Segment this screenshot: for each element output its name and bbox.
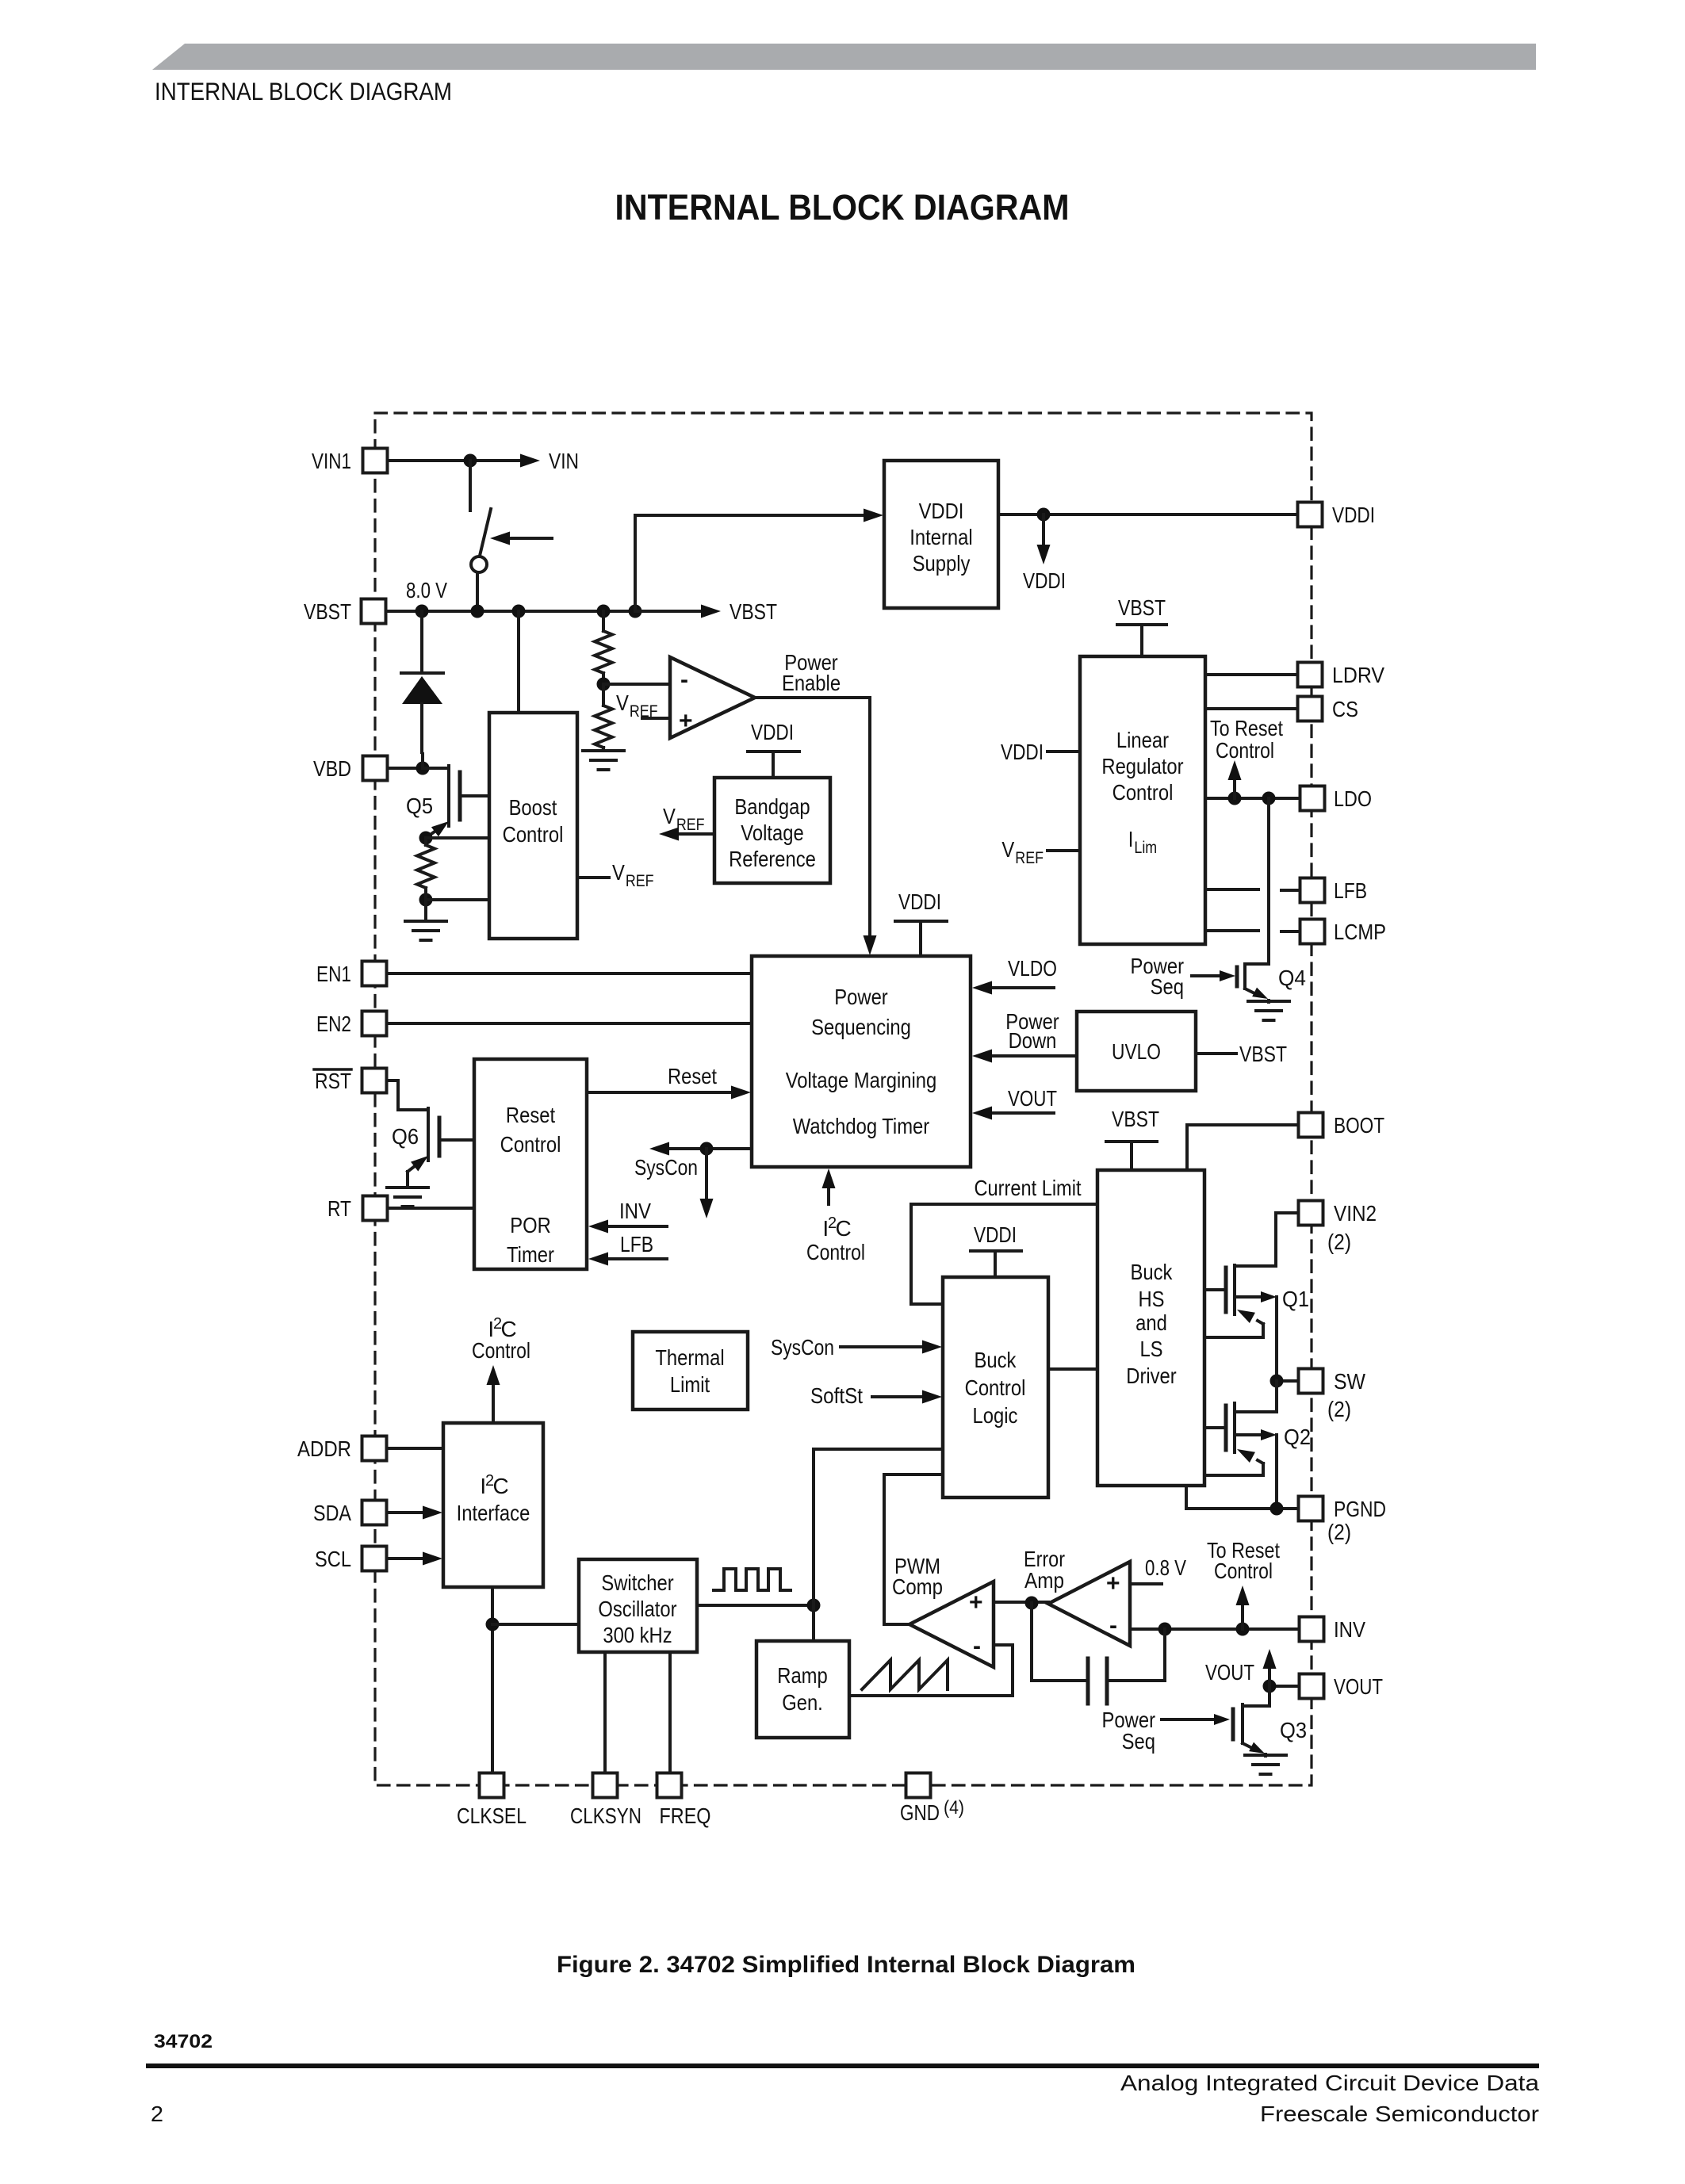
svg-text:VBST: VBST	[1112, 1107, 1159, 1131]
svg-text:+: +	[969, 1589, 983, 1616]
wire VOUT arrow up	[1268, 1668, 1271, 1686]
pin EN2	[362, 1012, 387, 1036]
svg-text:CLKSEL: CLKSEL	[457, 1803, 527, 1828]
svg-text:VDDI: VDDI	[1023, 568, 1066, 593]
svg-text:Interface: Interface	[457, 1501, 530, 1525]
svg-text:VDDI: VDDI	[898, 889, 941, 914]
figure caption	[557, 1952, 1135, 1978]
svg-text:Control: Control	[806, 1240, 865, 1264]
node LDO junction (Q4 drain)	[1262, 792, 1276, 805]
svg-text:(4): (4)	[944, 1797, 964, 1819]
block Buck HS and LS Driver	[1097, 1170, 1204, 1486]
svg-text:+: +	[679, 708, 693, 734]
node oscillator output junction	[807, 1599, 821, 1612]
wire LCMP (from box, broken at Q4 drain)	[1205, 929, 1258, 932]
wire Q5 source to Boost Control	[426, 836, 489, 840]
pin VOUT	[1300, 1674, 1324, 1699]
svg-text:Current Limit: Current Limit	[975, 1176, 1082, 1200]
footer right text	[1120, 2071, 1539, 2095]
wire VBST rail to Boost Control top	[517, 611, 520, 713]
wire error amp output to PWM +	[994, 1601, 1048, 1604]
pin LCMP	[1300, 920, 1325, 944]
block Reset Control / POR Timer	[474, 1059, 587, 1269]
wire VOUT	[1269, 1685, 1299, 1688]
wire tap to Boost Control	[426, 898, 489, 901]
pin ADDR	[362, 1436, 387, 1461]
wire RT to POR timer	[388, 1207, 474, 1210]
pin PGND	[1299, 1497, 1323, 1521]
node 8.0 V label	[406, 578, 447, 602]
wire LFB into POR timer	[606, 1257, 667, 1260]
svg-text:V: V	[1001, 837, 1014, 862]
pin LDRV	[1298, 663, 1323, 687]
wire ramp output to PWM comp - input	[849, 1645, 1013, 1696]
svg-text:VDDI: VDDI	[974, 1222, 1017, 1247]
wire SCL	[387, 1557, 423, 1560]
svg-text:LFB: LFB	[1334, 878, 1367, 903]
pin FREQ	[657, 1773, 682, 1798]
svg-text:Freescale Semiconductor: Freescale Semiconductor	[1260, 2102, 1539, 2126]
svg-text:Control: Control	[1216, 738, 1274, 763]
node I2C Control label (power seq)	[806, 1214, 865, 1264]
node To Reset Control arrow (LDO)	[1228, 792, 1242, 805]
ground (Q4)	[1248, 1000, 1289, 1003]
page title	[615, 187, 1070, 228]
wire SDA	[387, 1511, 423, 1514]
svg-text:Figure 2. 34702 Simplified Int: Figure 2. 34702 Simplified Internal Bloc…	[557, 1952, 1135, 1978]
ground (Q6)	[387, 1186, 428, 1189]
svg-text:Watchdog Timer: Watchdog Timer	[793, 1114, 929, 1138]
svg-text:V: V	[612, 860, 625, 885]
wire EN2	[387, 1022, 752, 1025]
node Power Seq label (Q4)	[1131, 954, 1184, 999]
wire SW	[1277, 1379, 1299, 1383]
svg-text:Control: Control	[500, 1132, 561, 1157]
ground (below R1)	[424, 900, 427, 921]
svg-text:Q3: Q3	[1280, 1718, 1307, 1742]
svg-text:(2): (2)	[1327, 1397, 1351, 1421]
wire to comparator - input	[603, 683, 670, 686]
svg-text:LFB: LFB	[620, 1232, 653, 1256]
node rail junctions	[416, 605, 429, 618]
op-amp Error Amp	[1048, 1562, 1130, 1646]
svg-text:VIN2: VIN2	[1334, 1201, 1377, 1226]
block UVLO	[1077, 1012, 1196, 1091]
block Thermal Limit	[633, 1332, 748, 1409]
pin CLKSEL	[480, 1773, 504, 1798]
capacitor C1 (error amp feedback)	[1032, 1603, 1088, 1681]
wire: VBST arrow out	[635, 610, 702, 613]
svg-text:Logic: Logic	[973, 1403, 1018, 1428]
svg-text:INTERNAL BLOCK DIAGRAM: INTERNAL BLOCK DIAGRAM	[615, 187, 1070, 228]
footer rule	[146, 2064, 1539, 2068]
node divider mid	[602, 673, 605, 684]
svg-text:SCL: SCL	[315, 1547, 351, 1571]
svg-text:FREQ: FREQ	[660, 1803, 711, 1828]
svg-text:CLKSYN: CLKSYN	[570, 1803, 641, 1828]
wire I2C interface down to CLKSEL	[491, 1587, 494, 1773]
svg-text:Seq: Seq	[1151, 974, 1184, 999]
svg-text:-: -	[1109, 1612, 1117, 1639]
wire: VIN arrow	[520, 454, 540, 468]
node I2C/osc junction	[486, 1618, 500, 1631]
svg-text:INV: INV	[1334, 1617, 1365, 1642]
wire LFB (from box, broken at Q4 drain)	[1205, 888, 1258, 891]
wire oscillator output	[697, 1604, 814, 1607]
svg-text:Amp: Amp	[1024, 1568, 1064, 1593]
svg-text:+: +	[1106, 1570, 1120, 1597]
wire Current Limit	[911, 1204, 1097, 1304]
wire buck control to driver	[1048, 1367, 1097, 1371]
svg-text:Control: Control	[1112, 780, 1174, 805]
svg-text:EN1: EN1	[316, 962, 351, 986]
svg-text:INTERNAL BLOCK DIAGRAM: INTERNAL BLOCK DIAGRAM	[155, 77, 452, 105]
header text	[155, 77, 452, 105]
svg-text:Reference: Reference	[729, 847, 816, 871]
svg-text:0.8 V: 0.8 V	[1145, 1555, 1186, 1580]
block Power Sequencing / Voltage Margining / Watchdog Timer	[752, 956, 971, 1167]
wire VIN1 to VIN	[388, 459, 523, 462]
svg-text:SysCon: SysCon	[771, 1335, 834, 1360]
op-amp U1 (power enable comparator)	[670, 657, 755, 738]
wire error amp - input to INV	[1130, 1627, 1299, 1631]
svg-text:Internal: Internal	[910, 525, 972, 549]
wire Power Enable to Power Sequencing	[755, 698, 870, 935]
pin RST (active low)	[362, 1069, 387, 1093]
svg-text:VDDI: VDDI	[1332, 503, 1375, 527]
svg-text:Switcher: Switcher	[601, 1570, 673, 1595]
op-amp PWM Comp	[910, 1582, 994, 1667]
node Power Enable label	[782, 650, 841, 695]
svg-text:CS: CS	[1332, 697, 1358, 721]
transistor Q4	[1267, 798, 1270, 964]
chip boundary (dashed)	[375, 413, 1312, 1785]
wire Reset to Power Sequencing	[587, 1091, 732, 1094]
wire PGND	[1186, 1486, 1299, 1509]
wire INV into POR timer	[606, 1225, 667, 1228]
block I2C Interface	[443, 1423, 543, 1587]
wire VIN2 to Q1 drain	[1236, 1213, 1299, 1266]
svg-text:RT: RT	[327, 1196, 351, 1221]
node SysCon junction	[700, 1142, 714, 1156]
wire VBST T-bar (linear reg)	[1117, 623, 1166, 626]
wire VREF output (bandgap, to left)	[678, 832, 714, 836]
svg-text:Control: Control	[965, 1375, 1026, 1400]
svg-text:Comp: Comp	[892, 1574, 943, 1599]
footer part number	[154, 2031, 213, 2052]
svg-text:-: -	[680, 667, 688, 693]
svg-text:Seq: Seq	[1122, 1729, 1155, 1754]
resistor R2 (VBST divider top)	[595, 631, 612, 673]
svg-text:VOUT: VOUT	[1205, 1660, 1254, 1685]
svg-text:2: 2	[151, 2102, 163, 2126]
svg-text:Q2: Q2	[1284, 1425, 1311, 1449]
pin BOOT	[1299, 1113, 1323, 1138]
transistor Q6	[387, 1081, 428, 1110]
svg-text:and: and	[1135, 1310, 1167, 1335]
svg-text:(2): (2)	[1327, 1230, 1351, 1254]
svg-text:Q1: Q1	[1282, 1287, 1309, 1311]
svg-text:Ramp: Ramp	[777, 1663, 827, 1688]
svg-text:Control: Control	[1214, 1559, 1273, 1583]
pin GND	[906, 1773, 931, 1798]
node VDDI output junction	[1037, 508, 1051, 522]
svg-text:INV: INV	[619, 1199, 651, 1223]
wire VBST rail	[386, 610, 635, 613]
svg-text:VDDI: VDDI	[751, 720, 794, 744]
svg-text:(2): (2)	[1327, 1520, 1351, 1544]
transistor Q5	[421, 754, 424, 768]
wire VBST (UVLO right)	[1196, 1052, 1236, 1055]
svg-text:Control: Control	[503, 822, 564, 847]
pin VIN1	[363, 449, 388, 473]
wire VREF output of Boost Control	[577, 876, 609, 879]
ground (Q3)	[1245, 1754, 1286, 1757]
svg-text:Q6: Q6	[392, 1124, 419, 1149]
node VBST label (linear reg top)	[1118, 595, 1166, 620]
transistor Q2	[1275, 1381, 1278, 1412]
pin LFB	[1300, 878, 1325, 903]
svg-text:REF: REF	[676, 816, 705, 834]
wire BOOT	[1187, 1125, 1299, 1170]
svg-text:EN2: EN2	[316, 1012, 351, 1036]
svg-text:I: I	[1128, 827, 1134, 851]
pin SW	[1299, 1369, 1323, 1394]
pin SCL	[362, 1547, 387, 1571]
svg-text:8.0 V: 8.0 V	[406, 578, 447, 602]
wire VBST T-bar (buck driver)	[1106, 1140, 1157, 1143]
svg-text:VLDO: VLDO	[1008, 956, 1057, 981]
svg-text:Lim: Lim	[1134, 839, 1157, 857]
svg-text:Reset: Reset	[668, 1064, 717, 1088]
wire PWM comp output to buck control	[884, 1474, 943, 1624]
svg-text:Buck: Buck	[975, 1348, 1017, 1372]
svg-text:VBST: VBST	[1118, 595, 1166, 620]
svg-text:Buck: Buck	[1131, 1260, 1174, 1284]
svg-text:POR: POR	[510, 1213, 551, 1237]
svg-text:Voltage: Voltage	[741, 820, 803, 845]
wire I2C Control up arrow	[492, 1384, 495, 1423]
wire CS	[1205, 707, 1299, 710]
svg-text:VBST: VBST	[304, 599, 351, 624]
footer page number	[151, 2102, 163, 2126]
svg-text:Q4: Q4	[1278, 966, 1306, 990]
svg-text:V: V	[663, 804, 676, 828]
svg-text:RST: RST	[315, 1069, 351, 1093]
wire LDO	[1205, 797, 1299, 800]
pin EN1	[362, 962, 387, 986]
wire clock to ramp gen	[812, 1605, 815, 1641]
svg-text:Voltage Margining: Voltage Margining	[786, 1068, 937, 1092]
svg-text:BOOT: BOOT	[1334, 1113, 1384, 1138]
node Q5 source junction	[419, 832, 433, 845]
svg-text:Oscillator: Oscillator	[598, 1597, 676, 1621]
clock waveform symbol	[714, 1569, 791, 1590]
svg-text:Linear: Linear	[1116, 728, 1169, 752]
pin CS	[1298, 697, 1323, 721]
svg-text:-: -	[973, 1633, 981, 1659]
svg-text:Driver: Driver	[1126, 1364, 1176, 1388]
svg-text:LS: LS	[1139, 1337, 1162, 1361]
node error amp output junction	[1025, 1597, 1039, 1610]
wire SysCon from Power Sequencing	[668, 1147, 752, 1150]
svg-text:Boost: Boost	[509, 795, 557, 820]
pin VDDI	[1298, 503, 1323, 527]
svg-text:VBST: VBST	[730, 599, 777, 624]
wire VLDO input	[991, 986, 1054, 989]
resistor R3 (VBST divider bottom)	[595, 706, 612, 748]
wire VBST rail up to VDDI Internal Supply	[635, 515, 864, 611]
wire clock to buck control	[814, 1449, 943, 1605]
sawtooth waveform symbol	[862, 1660, 948, 1689]
svg-text:Thermal: Thermal	[655, 1345, 724, 1370]
pin VIN2	[1299, 1201, 1323, 1226]
node VDDI supply rail label (bandgap)	[751, 720, 794, 744]
svg-text:V: V	[616, 690, 629, 715]
svg-text:Q5: Q5	[406, 794, 433, 818]
svg-text:VDDI: VDDI	[1001, 740, 1044, 764]
svg-text:Supply: Supply	[913, 551, 971, 576]
wire to oscillator	[492, 1623, 579, 1626]
block Bandgap Voltage Reference	[714, 778, 830, 883]
svg-text:Power: Power	[834, 985, 887, 1009]
svg-text:Down: Down	[1009, 1028, 1057, 1053]
block Boost Control	[489, 713, 577, 939]
pin CLKSYN	[593, 1773, 618, 1798]
pin VBST	[362, 599, 386, 624]
svg-text:VBD: VBD	[313, 756, 351, 781]
svg-text:LDRV: LDRV	[1332, 663, 1384, 687]
svg-text:Enable: Enable	[782, 671, 841, 695]
svg-text:Regulator: Regulator	[1101, 754, 1183, 778]
block Switcher Oscillator 300 kHz	[579, 1559, 697, 1652]
node divider tap	[419, 893, 433, 907]
svg-text:Sequencing: Sequencing	[811, 1015, 911, 1039]
node VBST label (buck driver)	[1112, 1107, 1159, 1131]
node VDDI label (power seq)	[898, 889, 941, 914]
svg-text:Gen.: Gen.	[782, 1690, 823, 1715]
switch S1 (VIN to VBST)	[469, 461, 472, 511]
node PGND junction	[1270, 1502, 1284, 1516]
node VOUT junction	[1263, 1680, 1277, 1693]
node VDDI label (buck control)	[974, 1222, 1017, 1247]
pin LDO	[1300, 786, 1325, 811]
wire VDDI T-bar (power seq)	[895, 920, 947, 923]
svg-text:SysCon: SysCon	[634, 1155, 698, 1180]
diode D1	[420, 611, 423, 673]
wire ADDR	[387, 1447, 443, 1450]
node I2C Control label (top)	[472, 1315, 530, 1363]
svg-text:SW: SW	[1334, 1369, 1366, 1394]
svg-text:VOUT: VOUT	[1008, 1086, 1057, 1111]
svg-text:HS: HS	[1138, 1287, 1164, 1311]
wire VREF input (linear reg)	[1047, 849, 1080, 852]
wire Power Down (UVLO to power seq)	[991, 1054, 1077, 1058]
svg-text:Bandgap: Bandgap	[734, 794, 810, 819]
svg-text:REF: REF	[1015, 849, 1044, 867]
svg-text:300 kHz: 300 kHz	[603, 1623, 672, 1647]
block VDDI Internal Supply	[884, 461, 998, 608]
wire I2C Control up into power seq	[827, 1186, 830, 1204]
block Linear Regulator Control	[1080, 656, 1205, 944]
svg-text:Timer: Timer	[507, 1242, 554, 1267]
wire + input stub	[642, 717, 670, 720]
svg-text:Control: Control	[472, 1338, 530, 1363]
svg-text:VDDI: VDDI	[919, 499, 964, 523]
wire EN1	[387, 972, 752, 975]
svg-text:PGND: PGND	[1334, 1497, 1386, 1521]
svg-text:REF: REF	[626, 872, 654, 890]
wire SysCon into buck control	[841, 1345, 924, 1348]
node SW junction	[1270, 1375, 1284, 1388]
svg-text:C: C	[835, 1216, 851, 1241]
wire FREQ	[668, 1652, 672, 1773]
pin INV	[1300, 1617, 1324, 1642]
svg-text:Analog Integrated Circuit Devi: Analog Integrated Circuit Device Data	[1120, 2071, 1539, 2095]
header gray bar	[152, 44, 1536, 70]
svg-text:Limit: Limit	[670, 1372, 710, 1397]
wire VOUT input	[991, 1111, 1054, 1115]
pin SDA	[362, 1501, 387, 1525]
svg-text:GND: GND	[900, 1800, 940, 1825]
pin RT	[363, 1196, 388, 1221]
svg-text:C: C	[492, 1474, 508, 1498]
svg-text:ADDR: ADDR	[297, 1436, 351, 1461]
block Buck Control Logic	[943, 1277, 1048, 1497]
svg-text:VBST: VBST	[1239, 1042, 1287, 1066]
svg-text:34702: 34702	[154, 2031, 213, 2052]
wire VDDI Internal Supply to VDDI pin	[998, 513, 1299, 516]
svg-text:LDO: LDO	[1334, 786, 1372, 811]
node VIN junction	[464, 454, 477, 468]
wire CLKSYN	[603, 1652, 607, 1773]
wire VDDI input (linear reg)	[1047, 750, 1080, 753]
svg-text:VIN1: VIN1	[312, 449, 351, 473]
wire 0.8 V reference stub	[1130, 1582, 1162, 1585]
svg-text:UVLO: UVLO	[1112, 1039, 1161, 1064]
pin VBD	[388, 767, 423, 770]
svg-text:VIN: VIN	[549, 449, 579, 473]
transistor Q1	[1204, 1288, 1226, 1291]
svg-text:Reset: Reset	[506, 1103, 555, 1127]
svg-text:VOUT: VOUT	[1334, 1674, 1383, 1699]
ground (below R3)	[602, 748, 605, 751]
wire VDDI arrow down	[1042, 514, 1045, 545]
node to-reset junction	[1236, 1623, 1250, 1636]
svg-text:SDA: SDA	[313, 1501, 351, 1525]
wire SoftSt into buck control	[872, 1395, 924, 1398]
wire LDRV	[1205, 673, 1299, 676]
node VIN label	[549, 449, 579, 473]
transistor Q3	[1243, 1686, 1269, 1706]
wire: switch control arrow	[508, 537, 552, 540]
wire VDDI T-bar (buck control)	[971, 1249, 1021, 1253]
wire To Reset Control arrow (INV)	[1241, 1605, 1244, 1629]
wire VDDI T-bar (bandgap)	[748, 750, 799, 753]
svg-text:LCMP: LCMP	[1334, 920, 1386, 944]
block Ramp Gen.	[756, 1641, 849, 1738]
node cap feedback junction	[1158, 1623, 1172, 1636]
svg-text:To Reset: To Reset	[1210, 716, 1283, 740]
svg-text:SoftSt: SoftSt	[810, 1383, 863, 1408]
resistor R1 (VBD divider)	[417, 845, 435, 888]
